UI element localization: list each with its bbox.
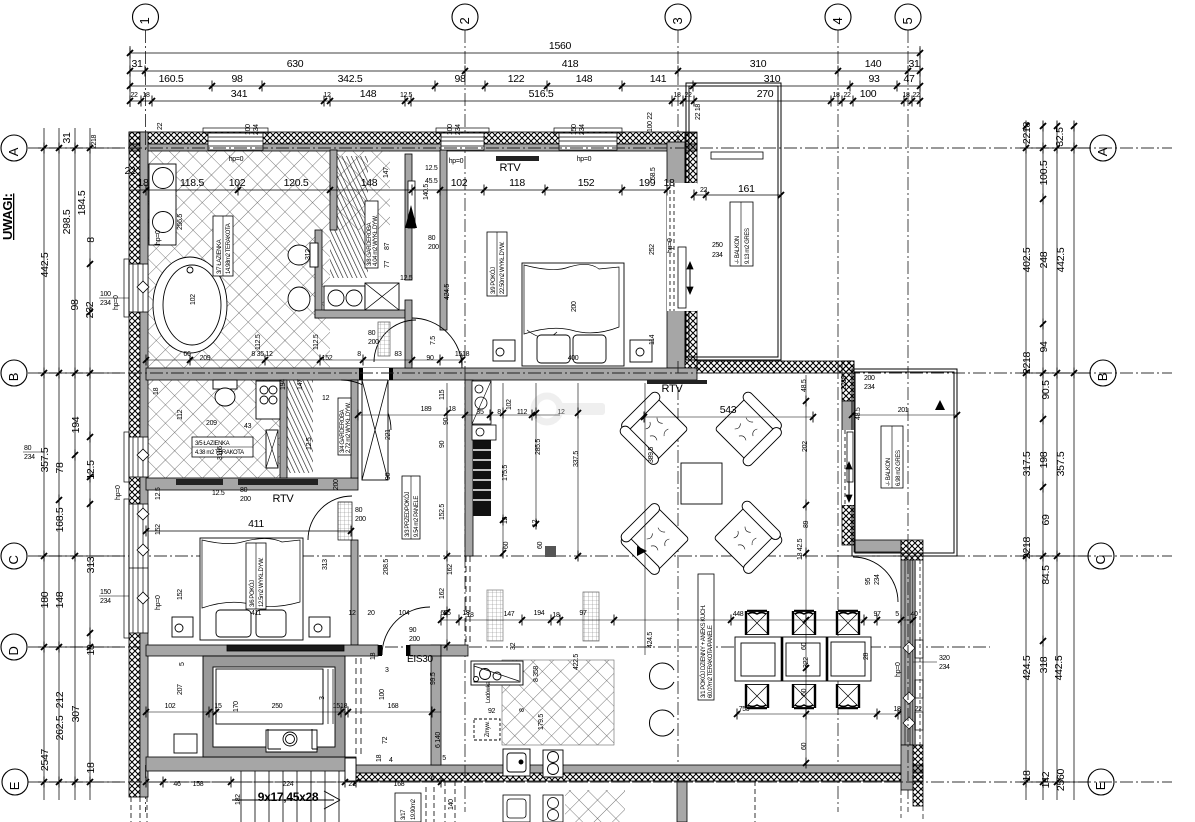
svg-text:184.5: 184.5 <box>76 190 88 215</box>
svg-text:148: 148 <box>54 591 66 608</box>
svg-text:140.5: 140.5 <box>423 184 430 200</box>
svg-text:9.13 m2 GRES: 9.13 m2 GRES <box>745 228 751 264</box>
svg-text:8: 8 <box>85 237 97 243</box>
svg-text:140: 140 <box>448 799 455 810</box>
svg-text:hp=0: hp=0 <box>155 595 162 610</box>
svg-text:256.5: 256.5 <box>177 214 184 230</box>
svg-text:A: A <box>1095 147 1110 156</box>
svg-text:180: 180 <box>39 591 51 608</box>
svg-text:424.5: 424.5 <box>1021 655 1033 680</box>
svg-text:32: 32 <box>510 642 517 650</box>
svg-text:18: 18 <box>466 612 474 619</box>
svg-text:90: 90 <box>409 627 417 634</box>
svg-text:5: 5 <box>900 17 915 24</box>
svg-text:22: 22 <box>915 706 922 713</box>
svg-text:199: 199 <box>639 177 656 189</box>
svg-text:100: 100 <box>100 291 111 298</box>
svg-text:341: 341 <box>231 88 248 100</box>
svg-text:200: 200 <box>571 301 578 312</box>
svg-text:RTV: RTV <box>500 162 522 174</box>
svg-text:78: 78 <box>54 462 66 474</box>
svg-text:411: 411 <box>251 610 261 617</box>
svg-text:B: B <box>1095 373 1110 381</box>
svg-text:448: 448 <box>733 611 744 618</box>
svg-text:234: 234 <box>253 124 260 135</box>
svg-text:234: 234 <box>100 300 111 307</box>
svg-text:22: 22 <box>685 92 692 99</box>
svg-text:234: 234 <box>455 124 462 135</box>
svg-text:342.5: 342.5 <box>338 73 363 85</box>
svg-text:202: 202 <box>802 441 809 452</box>
svg-text:7.5: 7.5 <box>430 336 437 345</box>
svg-text:201: 201 <box>898 407 909 414</box>
svg-text:516.5: 516.5 <box>529 88 554 100</box>
svg-text:200: 200 <box>240 496 251 503</box>
svg-text:60.0?m2 TERAKOTA/PANELE: 60.0?m2 TERAKOTA/PANELE <box>708 625 714 698</box>
svg-text:194: 194 <box>534 610 545 617</box>
svg-text:310: 310 <box>750 58 767 70</box>
svg-text:270: 270 <box>757 88 774 100</box>
svg-text:48.5: 48.5 <box>855 407 862 420</box>
svg-text:4: 4 <box>830 17 845 24</box>
svg-text:80: 80 <box>355 507 363 514</box>
svg-text:2560: 2560 <box>1055 768 1067 791</box>
svg-text:18: 18 <box>85 762 97 774</box>
svg-text:4.04 m2 WYKŁ.DYW.: 4.04 m2 WYKŁ.DYW. <box>373 215 379 266</box>
svg-text:12.5: 12.5 <box>400 92 413 99</box>
svg-text:12.5: 12.5 <box>400 275 413 282</box>
svg-text:102: 102 <box>165 703 176 710</box>
svg-text:152: 152 <box>322 355 333 362</box>
svg-text:162: 162 <box>447 564 454 575</box>
svg-text:200: 200 <box>333 479 340 490</box>
svg-text:12: 12 <box>322 395 330 402</box>
svg-text:22: 22 <box>124 165 136 177</box>
svg-text:60: 60 <box>503 541 510 549</box>
svg-text:8: 8 <box>357 351 361 358</box>
svg-text:72: 72 <box>382 736 389 744</box>
svg-text:148: 148 <box>576 73 593 85</box>
svg-text:182: 182 <box>235 794 242 805</box>
svg-text:C: C <box>1093 555 1108 564</box>
svg-text:250: 250 <box>712 242 723 249</box>
svg-text:114: 114 <box>649 334 656 345</box>
svg-text:200: 200 <box>368 339 379 346</box>
svg-text:1560: 1560 <box>549 40 572 52</box>
svg-text:60: 60 <box>801 642 808 650</box>
svg-text:5: 5 <box>442 755 446 762</box>
svg-text:208.5: 208.5 <box>383 559 390 575</box>
svg-text:234: 234 <box>579 124 586 135</box>
svg-text:234: 234 <box>100 598 111 605</box>
svg-text:194: 194 <box>70 416 82 433</box>
svg-text:92: 92 <box>488 708 495 715</box>
svg-text:262.5: 262.5 <box>54 715 66 740</box>
svg-text:6.98 m2 GRES: 6.98 m2 GRES <box>896 450 902 486</box>
svg-text:422.5: 422.5 <box>573 654 580 670</box>
svg-text:18: 18 <box>674 92 681 99</box>
svg-text:22.50m2 WYKŁ.DYW.: 22.50m2 WYKŁ.DYW. <box>500 241 506 294</box>
svg-text:18: 18 <box>153 387 160 395</box>
svg-text:120.5: 120.5 <box>284 177 309 189</box>
svg-text:221: 221 <box>385 429 392 440</box>
svg-text:147: 147 <box>504 611 515 618</box>
svg-text:A: A <box>6 147 21 156</box>
svg-text:2218: 2218 <box>1021 121 1033 144</box>
svg-text:200: 200 <box>428 244 439 251</box>
svg-text:98: 98 <box>231 73 243 85</box>
svg-text:6 140: 6 140 <box>435 732 442 748</box>
svg-text:152: 152 <box>177 589 184 600</box>
svg-text:168.5: 168.5 <box>54 507 66 532</box>
svg-text:543: 543 <box>720 404 737 416</box>
svg-text:209: 209 <box>206 420 217 427</box>
svg-text:313: 313 <box>85 556 97 573</box>
svg-text:102: 102 <box>229 177 246 189</box>
svg-text:31: 31 <box>908 58 920 70</box>
svg-text:31: 31 <box>61 132 73 144</box>
svg-text:60: 60 <box>801 688 808 696</box>
svg-text:hp=0: hp=0 <box>449 158 464 165</box>
svg-text:3/17: 3/17 <box>401 809 407 820</box>
svg-text:18: 18 <box>1021 770 1033 782</box>
svg-text:80: 80 <box>240 487 248 494</box>
svg-text:3/3 PRZEDPOKÓJ: 3/3 PRZEDPOKÓJ <box>404 492 411 537</box>
svg-text:2218: 2218 <box>1021 351 1033 374</box>
svg-text:150: 150 <box>571 124 578 135</box>
svg-text:209: 209 <box>200 355 211 362</box>
svg-text:320: 320 <box>939 655 950 662</box>
svg-text:47: 47 <box>903 73 915 85</box>
svg-text:313: 313 <box>322 559 329 570</box>
svg-text:77: 77 <box>384 260 391 268</box>
svg-text:424.5: 424.5 <box>647 632 654 648</box>
svg-text:162: 162 <box>439 588 446 599</box>
svg-text:90: 90 <box>426 355 434 362</box>
svg-text:102: 102 <box>190 294 197 305</box>
svg-text:112.5: 112.5 <box>313 334 320 350</box>
svg-text:115: 115 <box>439 389 446 400</box>
svg-text:3/5 ŁAZIENKA: 3/5 ŁAZIENKA <box>195 441 230 447</box>
svg-text:389.5: 389.5 <box>648 447 655 463</box>
svg-text:90: 90 <box>439 440 446 448</box>
svg-text:80: 80 <box>368 330 376 337</box>
svg-text:48.5: 48.5 <box>801 379 808 392</box>
svg-text:hp=0: hp=0 <box>667 238 674 253</box>
svg-text:161: 161 <box>738 183 755 195</box>
svg-text:UWAGI:: UWAGI: <box>0 193 15 240</box>
svg-text:418: 418 <box>562 58 579 70</box>
svg-text:102: 102 <box>451 177 468 189</box>
svg-text:337.5: 337.5 <box>573 451 580 467</box>
svg-text:E: E <box>7 781 22 790</box>
svg-text:179.5: 179.5 <box>538 714 545 730</box>
svg-text:234: 234 <box>939 664 950 671</box>
svg-text:99.5: 99.5 <box>430 672 437 685</box>
svg-text:80: 80 <box>24 445 32 452</box>
svg-text:402.5: 402.5 <box>1021 247 1033 272</box>
svg-text:3/6 POKÓJ: 3/6 POKÓJ <box>249 580 256 607</box>
svg-text:9.54 m2 PANELE: 9.54 m2 PANELE <box>414 496 420 537</box>
svg-text:31: 31 <box>131 58 143 70</box>
svg-text:200: 200 <box>355 516 366 523</box>
svg-text:148: 148 <box>361 177 378 189</box>
svg-text:8 358: 8 358 <box>533 666 540 682</box>
svg-text:-/- BALKON: -/- BALKON <box>886 458 892 486</box>
svg-text:122: 122 <box>508 73 525 85</box>
svg-text:3: 3 <box>670 17 685 24</box>
svg-text:90: 90 <box>385 472 392 480</box>
svg-text:100 22: 100 22 <box>647 112 654 132</box>
svg-text:100: 100 <box>447 124 454 135</box>
svg-text:3/1 POKÓJ DZIENNY + ANEKS KUC: 3/1 POKÓJ DZIENNY + ANEKS KUCH. <box>700 604 707 698</box>
svg-text:357.5: 357.5 <box>39 447 51 472</box>
svg-text:2.72 m2 WYKŁ.DYW.: 2.72 m2 WYKŁ.DYW. <box>346 402 352 453</box>
svg-text:18: 18 <box>448 406 456 413</box>
svg-text:212: 212 <box>54 691 66 708</box>
svg-text:19.90m2: 19.90m2 <box>411 798 417 820</box>
svg-text:69: 69 <box>1040 514 1052 526</box>
svg-text:9x17,45x28: 9x17,45x28 <box>258 790 319 804</box>
svg-text:18: 18 <box>903 92 910 99</box>
svg-text:3/9 POKÓJ: 3/9 POKÓJ <box>490 267 497 294</box>
svg-text:207: 207 <box>177 684 184 695</box>
svg-text:310: 310 <box>764 73 781 85</box>
svg-text:Zmyw.: Zmyw. <box>485 721 491 737</box>
svg-text:100.5: 100.5 <box>1038 160 1050 185</box>
svg-text:89: 89 <box>803 520 810 528</box>
svg-text:12.5: 12.5 <box>212 490 225 497</box>
svg-text:1518: 1518 <box>333 703 348 710</box>
svg-text:2218: 2218 <box>1021 536 1033 559</box>
svg-text:12: 12 <box>348 610 356 617</box>
svg-text:234: 234 <box>874 574 881 585</box>
svg-text:168: 168 <box>388 703 399 710</box>
svg-text:140: 140 <box>865 58 882 70</box>
svg-text:2218: 2218 <box>91 135 98 149</box>
svg-text:12.5: 12.5 <box>155 487 162 500</box>
svg-text:152: 152 <box>155 524 162 535</box>
svg-text:C: C <box>6 555 21 564</box>
svg-text:5: 5 <box>895 611 899 618</box>
svg-text:100: 100 <box>860 88 877 100</box>
svg-text:152: 152 <box>578 177 595 189</box>
svg-text:200: 200 <box>409 636 420 643</box>
svg-text:RTV: RTV <box>273 493 295 505</box>
svg-text:18: 18 <box>663 177 675 189</box>
svg-text:D: D <box>6 646 21 655</box>
svg-text:22: 22 <box>157 122 164 130</box>
svg-text:95: 95 <box>865 578 872 585</box>
svg-text:hp=0: hp=0 <box>113 295 120 310</box>
svg-text:18: 18 <box>143 92 150 99</box>
svg-text:148: 148 <box>360 88 377 100</box>
svg-text:5: 5 <box>179 662 186 666</box>
svg-text:hp=0: hp=0 <box>155 230 162 245</box>
svg-text:1: 1 <box>137 17 152 24</box>
svg-text:32.5: 32.5 <box>1054 127 1066 147</box>
svg-text:EIS30: EIS30 <box>407 654 433 665</box>
svg-text:28: 28 <box>863 653 870 660</box>
svg-text:90: 90 <box>443 417 450 425</box>
svg-text:147: 147 <box>383 167 390 178</box>
svg-text:250: 250 <box>272 703 283 710</box>
svg-text:43: 43 <box>244 423 252 430</box>
svg-text:3: 3 <box>319 696 326 700</box>
svg-text:83: 83 <box>394 351 402 358</box>
svg-text:160.5: 160.5 <box>159 73 184 85</box>
svg-text:200: 200 <box>864 375 875 382</box>
svg-text:152.5: 152.5 <box>439 504 446 520</box>
svg-text:98: 98 <box>69 299 81 311</box>
svg-text:411: 411 <box>248 518 264 530</box>
svg-text:2: 2 <box>457 17 472 24</box>
svg-text:4: 4 <box>389 757 393 764</box>
svg-text:234: 234 <box>712 252 723 259</box>
svg-text:12.5: 12.5 <box>85 460 97 480</box>
svg-text:112.5: 112.5 <box>255 334 262 350</box>
svg-text:198: 198 <box>1038 451 1050 468</box>
svg-text:hp=0: hp=0 <box>229 156 244 163</box>
svg-text:147: 147 <box>297 379 304 390</box>
svg-text:18: 18 <box>376 754 383 762</box>
svg-text:118: 118 <box>509 177 525 189</box>
svg-text:234: 234 <box>864 384 875 391</box>
svg-text:12.5: 12.5 <box>425 165 438 172</box>
svg-text:150: 150 <box>100 589 111 596</box>
svg-text:B: B <box>6 373 21 381</box>
svg-text:400: 400 <box>568 355 579 362</box>
svg-text:442.5: 442.5 <box>39 252 51 277</box>
svg-text:312: 312 <box>305 249 312 260</box>
svg-text:22: 22 <box>913 92 920 99</box>
svg-text:750: 750 <box>739 706 750 713</box>
svg-text:194: 194 <box>280 379 287 390</box>
svg-text:40: 40 <box>911 611 918 618</box>
svg-text:18: 18 <box>833 92 840 99</box>
svg-text:234: 234 <box>24 454 35 461</box>
svg-text:-/- BALKON: -/- BALKON <box>735 236 741 264</box>
svg-text:Lodówka: Lodówka <box>486 681 492 703</box>
svg-text:22: 22 <box>844 92 851 99</box>
svg-text:189: 189 <box>421 406 432 413</box>
svg-text:112: 112 <box>177 409 184 420</box>
svg-text:6: 6 <box>431 775 435 782</box>
svg-text:97: 97 <box>579 610 587 617</box>
svg-text:18: 18 <box>137 177 149 189</box>
svg-text:3/7 ŁAZIENKA: 3/7 ŁAZIENKA <box>217 239 223 274</box>
svg-text:45.5: 45.5 <box>425 178 438 185</box>
svg-text:84.5: 84.5 <box>1040 565 1052 585</box>
svg-text:100: 100 <box>245 124 252 135</box>
svg-text:87: 87 <box>384 242 391 250</box>
svg-text:102: 102 <box>506 399 513 410</box>
svg-text:232: 232 <box>84 301 96 318</box>
svg-text:2218: 2218 <box>841 375 848 390</box>
svg-text:318: 318 <box>1038 656 1050 673</box>
svg-text:90.5: 90.5 <box>1040 380 1052 400</box>
svg-text:18: 18 <box>370 652 377 660</box>
svg-text:hp=0: hp=0 <box>577 156 592 163</box>
svg-text:22: 22 <box>131 92 138 99</box>
svg-text:14.98m2 TERAKOTA: 14.98m2 TERAKOTA <box>226 223 232 274</box>
svg-text:98: 98 <box>454 73 466 85</box>
svg-text:442.5: 442.5 <box>1055 247 1067 272</box>
svg-text:12.5: 12.5 <box>306 437 313 450</box>
svg-text:141: 141 <box>650 73 667 85</box>
svg-text:60: 60 <box>537 541 544 549</box>
svg-text:60: 60 <box>801 742 808 750</box>
svg-text:248: 248 <box>1038 251 1050 268</box>
svg-text:80: 80 <box>428 235 436 242</box>
svg-text:hp=0: hp=0 <box>115 485 122 500</box>
svg-text:2547: 2547 <box>39 748 51 771</box>
svg-text:357.5: 357.5 <box>1055 451 1067 476</box>
svg-text:93: 93 <box>868 73 880 85</box>
svg-text:170: 170 <box>233 701 240 712</box>
svg-text:18 42.5: 18 42.5 <box>797 538 804 560</box>
svg-text:3116: 3116 <box>217 446 224 460</box>
svg-text:22 18: 22 18 <box>695 104 702 120</box>
svg-text:12.5m2 WYKŁ.DYW.: 12.5m2 WYKŁ.DYW. <box>259 557 265 607</box>
svg-text:3: 3 <box>385 667 389 674</box>
svg-text:94: 94 <box>1038 341 1050 353</box>
svg-text:298.5: 298.5 <box>61 209 73 234</box>
svg-text:307: 307 <box>70 705 82 722</box>
svg-text:8: 8 <box>519 708 526 712</box>
svg-text:100: 100 <box>379 689 386 700</box>
svg-text:12: 12 <box>324 92 331 99</box>
svg-text:104: 104 <box>399 610 410 617</box>
svg-text:252: 252 <box>649 244 656 255</box>
svg-text:20: 20 <box>367 610 375 617</box>
svg-text:8 35 12: 8 35 12 <box>251 351 273 358</box>
svg-text:317.5: 317.5 <box>1021 451 1033 476</box>
svg-text:E: E <box>1093 781 1108 790</box>
svg-text:142: 142 <box>1040 771 1052 788</box>
svg-text:18: 18 <box>85 644 97 656</box>
svg-text:118.5: 118.5 <box>180 177 204 189</box>
svg-text:hp=0: hp=0 <box>895 662 902 677</box>
svg-text:424.5: 424.5 <box>444 284 451 300</box>
svg-text:630: 630 <box>287 58 304 70</box>
svg-text:RTV: RTV <box>662 383 684 395</box>
svg-text:442.5: 442.5 <box>1053 655 1065 680</box>
